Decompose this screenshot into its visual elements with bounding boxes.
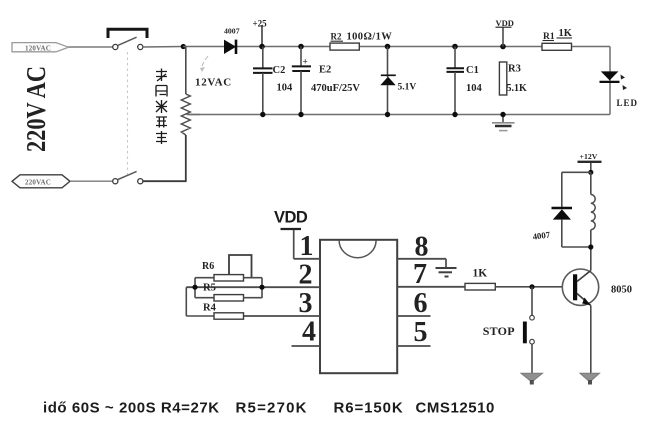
svg-text:+25: +25 <box>253 19 268 29</box>
svg-text:R5=270K: R5=270K <box>236 400 308 417</box>
pin 5 <box>397 345 430 347</box>
svg-text:E2: E2 <box>319 65 331 76</box>
node <box>298 44 304 50</box>
svg-text:VDD: VDD <box>274 209 308 227</box>
R4 <box>203 303 244 320</box>
pin 8 <box>397 258 446 260</box>
bottom rail wire (ground/return) <box>187 114 611 116</box>
svg-text:5.1V: 5.1V <box>398 83 417 93</box>
svg-text:6: 6 <box>414 288 428 319</box>
node <box>452 44 458 50</box>
wire <box>143 46 184 49</box>
svg-text:VDD: VDD <box>496 18 514 28</box>
svg-text:R3: R3 <box>508 64 521 75</box>
svg-text:C1: C1 <box>466 65 479 76</box>
svg-text:5: 5 <box>414 317 428 348</box>
zener D2 5.1V <box>380 47 416 115</box>
pin 4 <box>292 345 321 347</box>
svg-text:idő 60S ~ 200S R4=27K: idő 60S ~ 200S R4=27K <box>43 400 220 417</box>
pin 8 ground <box>436 259 457 277</box>
node at STOP branch <box>529 284 534 289</box>
svg-text:C2: C2 <box>273 65 286 76</box>
svg-text:104: 104 <box>466 83 483 94</box>
ground under STOP <box>521 373 543 384</box>
VDD wire to pin1 <box>293 230 295 259</box>
svg-text:+12V: +12V <box>580 152 598 161</box>
base wire <box>495 286 563 288</box>
resistor R2 100ohm/1W <box>330 32 392 51</box>
diode D1 4007 <box>224 27 240 55</box>
svg-text:R2: R2 <box>331 32 342 42</box>
svg-text:104: 104 <box>277 83 294 94</box>
node <box>385 44 391 50</box>
svg-text:R5: R5 <box>203 283 216 294</box>
node <box>181 44 186 49</box>
LED <box>600 71 639 107</box>
svg-text:8050: 8050 <box>611 284 632 295</box>
capacitor C1 104 <box>447 47 483 115</box>
switch S1b <box>113 171 143 183</box>
relay coil K1 <box>591 172 595 247</box>
svg-text:R6=150K: R6=150K <box>334 400 404 417</box>
node dots on pin2 line <box>192 285 197 290</box>
R5 <box>195 283 262 302</box>
svg-text:R4: R4 <box>203 303 217 314</box>
svg-text:CMS12510: CMS12510 <box>416 400 495 417</box>
far left loop wire to R4 <box>185 287 187 316</box>
IC U1 CMS12510 <box>320 240 397 373</box>
top rail wire <box>183 46 610 48</box>
svg-text:R6: R6 <box>202 261 214 272</box>
svg-text:220VAC: 220VAC <box>25 178 51 186</box>
R6 <box>195 261 262 281</box>
heater label 分段发热丝 (stroke approximation) <box>156 69 167 145</box>
pin 3 <box>244 315 321 317</box>
capacitor E2 470uF/25V <box>292 47 361 115</box>
node +25 test point <box>253 19 268 47</box>
svg-text:STOP: STOP <box>483 324 515 338</box>
ground under R3 <box>492 115 515 131</box>
terminal J1 (line input flag) <box>12 43 69 53</box>
emitter wire <box>590 306 592 374</box>
switch gang bracket <box>108 29 147 38</box>
svg-text:5.1K: 5.1K <box>507 83 528 94</box>
node relay bottom / collector <box>588 244 593 249</box>
wire <box>70 180 112 182</box>
node with VDD stub <box>500 44 506 50</box>
+12V supply <box>578 152 602 173</box>
switch mechanical link (dashed) <box>127 52 129 175</box>
pin 6 <box>397 315 430 317</box>
svg-text:1: 1 <box>300 231 314 262</box>
terminal J2 (neutral flag) <box>12 175 70 188</box>
svg-text:7: 7 <box>413 259 427 290</box>
svg-text:+: + <box>303 57 308 67</box>
svg-text:1K: 1K <box>559 28 573 39</box>
junction dots on bottom rail <box>260 112 265 117</box>
svg-text:12VAC: 12VAC <box>195 77 232 89</box>
svg-text:8: 8 <box>415 232 429 263</box>
svg-text:4007: 4007 <box>224 27 240 36</box>
svg-text:3: 3 <box>299 288 313 319</box>
heater element (分段发热丝) <box>181 47 200 182</box>
pin 7 <box>397 286 465 288</box>
pin 1 <box>294 258 320 260</box>
svg-text:LED: LED <box>617 98 639 108</box>
faint tap arrow <box>200 56 208 72</box>
collector wire <box>590 247 592 271</box>
flyback diode 4007 <box>532 172 591 247</box>
jumper link over R6 <box>229 255 252 277</box>
svg-text:1K: 1K <box>473 268 488 280</box>
svg-text:2: 2 <box>299 260 313 291</box>
wire to heater bottom <box>143 180 187 182</box>
svg-text:100Ω/1W: 100Ω/1W <box>347 32 393 43</box>
svg-text:220V AC: 220V AC <box>21 66 51 152</box>
capacitor C2 104 <box>253 47 293 115</box>
ground under emitter <box>580 373 600 384</box>
LED branch wire <box>609 47 611 115</box>
resistor 1K (base) <box>465 268 495 291</box>
node relay top <box>588 170 593 175</box>
pin 2 <box>186 286 320 288</box>
resistor R3 5.1K <box>499 62 527 95</box>
resistor R1 1K <box>542 28 573 50</box>
transistor Q1 8050 <box>562 269 632 306</box>
right bracket wire <box>261 278 263 298</box>
STOP pushbutton <box>483 287 535 374</box>
svg-text:470uF/25V: 470uF/25V <box>311 83 360 94</box>
left bracket wire <box>194 278 196 298</box>
switch S1a <box>113 37 143 49</box>
svg-text:120VAC: 120VAC <box>25 44 51 52</box>
svg-text:4: 4 <box>302 317 316 348</box>
wire <box>69 46 113 48</box>
